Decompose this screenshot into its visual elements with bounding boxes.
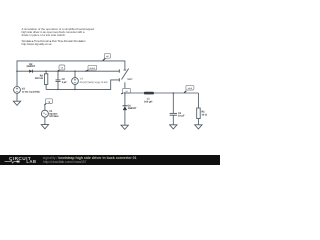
- svg-text:1 μF: 1 μF: [62, 81, 68, 84]
- svg-text:vboot: vboot: [90, 67, 96, 70]
- svg-text:SW1: SW1: [127, 78, 133, 81]
- capacitor C1: [170, 113, 177, 115]
- node label box vout: [184, 85, 194, 93]
- node junction D1 top: [124, 92, 126, 94]
- ground under C1: [170, 125, 177, 129]
- ground under V2: [13, 101, 20, 105]
- svg-text:1N4007: 1N4007: [128, 107, 137, 110]
- ground under D1: [121, 125, 128, 129]
- svg-text:vout: vout: [188, 87, 193, 90]
- diode D2: [29, 70, 32, 73]
- svg-text:10 μF: 10 μF: [178, 114, 185, 117]
- value label V3: [80, 78, 108, 84]
- svg-text:1N4007: 1N4007: [26, 65, 35, 68]
- value label V1: [49, 110, 59, 118]
- value label R1: [202, 110, 207, 116]
- resistor R2: [44, 74, 47, 85]
- footer title text: [43, 156, 137, 160]
- svg-text:100 μH: 100 μH: [144, 100, 152, 103]
- wire D1 leads: [124, 93, 126, 106]
- value label D2: [26, 63, 35, 68]
- node junction V3 top: [74, 70, 76, 72]
- node label box vboot: [86, 65, 97, 71]
- node label box vg: [44, 99, 52, 106]
- svg-text:10 Ω: 10 Ω: [202, 113, 207, 116]
- CircuitLab logo: [0, 155, 42, 165]
- value label D1: [128, 104, 137, 110]
- node junction C2 bottom: [57, 89, 59, 91]
- wire top rail from V2 to switch drain: [17, 61, 125, 87]
- wire mid bootstrap rail: [17, 70, 119, 72]
- node junction C1 top: [173, 92, 175, 94]
- capacitor C2: [56, 80, 61, 82]
- value label V2: [22, 88, 40, 94]
- svg-text:GU(V(T(5kΩ))·V(vg)·10 kΩ): GU(V(T(5kΩ))·V(vg)·10 kΩ): [80, 81, 108, 84]
- circuit schematic: [0, 0, 220, 165]
- svg-text:V3: V3: [80, 78, 84, 81]
- wire C1 leads: [172, 93, 174, 113]
- diode D1: [123, 106, 128, 110]
- wire R1 leads: [197, 93, 199, 108]
- behavioral source V3: [72, 78, 79, 85]
- value label C2: [62, 78, 68, 84]
- node label box vs: [121, 89, 130, 95]
- node label box vin: [103, 54, 111, 61]
- value label C1: [178, 112, 185, 118]
- wire R2 leads: [45, 71, 47, 74]
- wire V3 leads: [74, 71, 76, 77]
- voltage source V2: [14, 87, 21, 102]
- wire switching node rail: [124, 92, 198, 125]
- node junction R2 top: [45, 70, 47, 72]
- node junction V2/mid rail: [16, 70, 18, 72]
- wire control return rail to switch minus terminal: [46, 80, 119, 90]
- node label box va: [58, 65, 65, 71]
- value label L1: [144, 98, 152, 104]
- svg-text:100 kHz: 100 kHz: [49, 115, 59, 118]
- svg-text:V2: V2: [22, 88, 26, 91]
- node junction C2 top (va): [57, 70, 59, 72]
- footer url text: [43, 160, 86, 164]
- ground under V1: [41, 125, 48, 129]
- description text block: [22, 27, 222, 49]
- node junction V3 bottom: [74, 89, 76, 91]
- resistor R1: [197, 108, 201, 119]
- footer bar: [0, 155, 220, 165]
- voltage source V1 square wave: [41, 106, 48, 125]
- ground under R1: [195, 125, 202, 129]
- inductor L1: [144, 92, 154, 95]
- wire C2 leads: [57, 71, 59, 80]
- svg-text:12 V(1-exp(-t/5k)): 12 V(1-exp(-t/5k)): [22, 91, 40, 94]
- switch SW1 voltage controlled: [119, 69, 128, 89]
- svg-text:LAB: LAB: [26, 159, 36, 164]
- value label R2: [35, 74, 44, 80]
- svg-text:100 kΩ: 100 kΩ: [35, 77, 43, 80]
